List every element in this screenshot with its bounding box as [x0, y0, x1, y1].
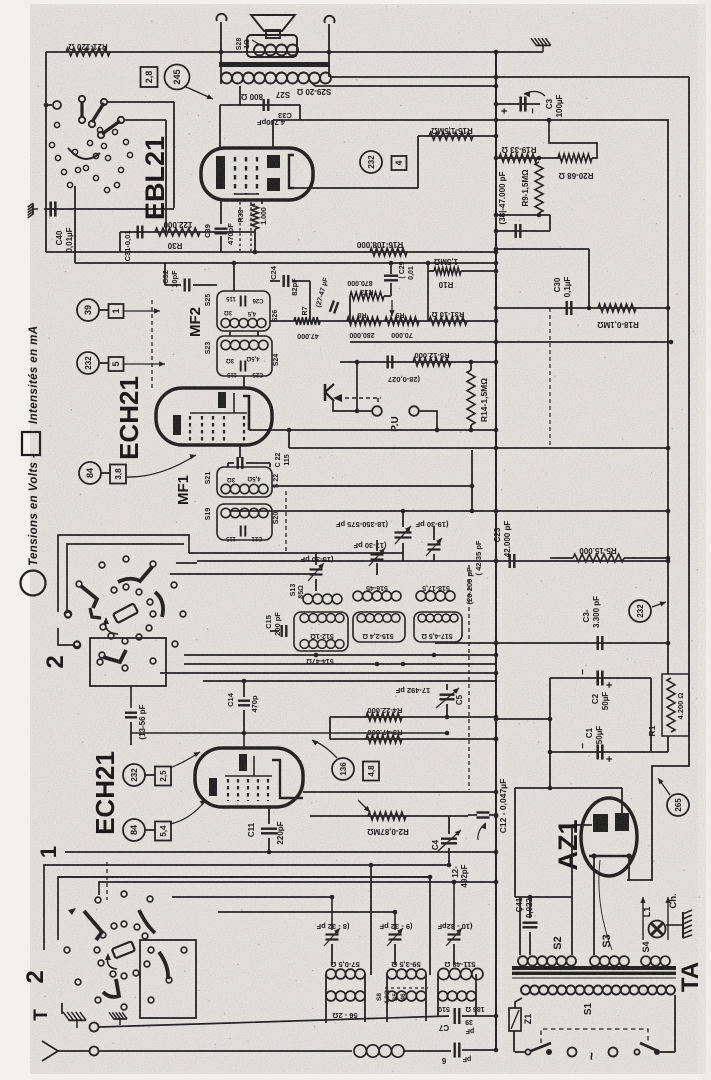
capacitor C14 470pF: [243, 681, 245, 697]
wire R7 row: [270, 320, 496, 322]
switch1 lower box: [140, 940, 196, 1018]
resistor R33 1.000: [252, 204, 259, 229]
AZ1 legs: [593, 856, 595, 955]
switch2 contact b: [74, 642, 81, 649]
wire left vertical feed: [45, 52, 47, 252]
capacitor C11: [268, 807, 270, 824]
switch1 wafer contacts: [95, 897, 101, 903]
wire row to MF2: [233, 263, 235, 291]
EBL21 grid dashes: [234, 157, 236, 194]
ground C40: [28, 203, 38, 218]
switch2 wires right: [189, 552, 403, 554]
trimmer C16: [315, 552, 317, 565]
wire transformer second tap: [315, 85, 496, 87]
S1 left leg: [515, 998, 522, 1008]
switch1 dashed axis: [106, 862, 108, 900]
antenna series coil: [354, 1045, 366, 1057]
wire long row B: [75, 262, 496, 264]
wire long row A: [46, 251, 496, 253]
ground lamp: [666, 924, 682, 926]
wire rows to switch: [184, 654, 496, 656]
resistor R10: [434, 268, 461, 275]
arrow legend 1: [124, 310, 160, 312]
EBL21 plate bracket: [289, 155, 294, 188]
tube ECH21 osc envelope: [195, 748, 303, 807]
wire K to PU: [333, 401, 372, 411]
arrow 232 right: [652, 602, 666, 607]
wire antenna row end: [462, 1049, 496, 1051]
resistor R2 0,87MΩ row: [310, 815, 468, 817]
dashed vertical x550: [549, 308, 551, 445]
speaker coil S28: [254, 45, 265, 56]
dashed legend vertical: [151, 300, 153, 390]
wire switch blade1 out: [108, 101, 174, 103]
circled 84 a: [79, 462, 101, 484]
MF1 lower coil: [221, 508, 230, 517]
winding S1: [521, 986, 530, 995]
wire switch blade2 out: [125, 119, 166, 121]
ground terre: [63, 1012, 86, 1028]
arrow 136: [312, 740, 337, 758]
arrow 245 to transformer: [184, 86, 213, 99]
legend box symbol: [22, 432, 40, 455]
trimmer C10 32pF: [453, 882, 455, 930]
arrow 2,5: [170, 752, 200, 768]
resistor R1 zigzag: [667, 678, 675, 732]
switch SP blade 2: [102, 121, 120, 134]
MF1 lower capacitor C21: [240, 526, 242, 537]
output transformer winding S27: [221, 73, 232, 84]
ground terre 2: [109, 1012, 127, 1025]
capacitor C39: [215, 227, 228, 229]
detector K symbol: [324, 384, 327, 401]
lamp L1: [649, 921, 666, 938]
MF2 upper capacitor C26: [240, 296, 242, 307]
wire MF1 to grid row: [272, 485, 472, 487]
arrow R2 tap: [358, 800, 370, 812]
wire tube osc top feed: [243, 733, 245, 748]
capacitor C24: [283, 275, 285, 287]
switch SP contacts: [54, 122, 59, 127]
wire C41 top: [515, 896, 572, 898]
wire AZ1 feed box: [515, 787, 622, 789]
transformer MF1 lower box: [217, 504, 272, 540]
wire row R3: [330, 738, 496, 740]
border outer right: [627, 77, 689, 880]
bus main vertical: [495, 52, 497, 1051]
transformer MF2 upper box: [217, 291, 270, 331]
capacitor C6 3.300pF: [597, 636, 599, 650]
mains switch left: [525, 1049, 530, 1054]
switch2 lower contacts: [97, 659, 103, 665]
resistor R15: [429, 132, 473, 140]
speaker LS: [247, 15, 297, 57]
output transformer core: [219, 62, 330, 67]
MF2 lower coil: [221, 340, 230, 349]
oscillator coil S16: [353, 591, 363, 601]
wire row y362: [340, 361, 496, 363]
circled 84 osc: [123, 819, 145, 841]
circled 232 right: [629, 600, 651, 622]
wire row y215: [496, 214, 550, 216]
resistor R30 122.000: [155, 228, 200, 236]
resistor R9 1,5MΩ vertical: [535, 162, 543, 213]
capacitor C13 56pF: [130, 686, 132, 708]
coil S10: [438, 991, 448, 1001]
S1 right leg: [674, 995, 676, 1052]
winding S3: [590, 956, 600, 966]
trimmer C8 32pF: [331, 897, 333, 930]
switch1 inner box b: [99, 882, 496, 895]
capacitor C1 50µF: [596, 745, 599, 760]
boxed 1: [109, 304, 124, 318]
AZ1 squiggle: [599, 860, 612, 950]
circled 232 osc: [123, 764, 145, 786]
wire grid row EBL21: [120, 231, 255, 233]
wire C2 row: [550, 677, 651, 679]
wire row R4: [330, 716, 496, 718]
switch SP blade 1: [92, 103, 104, 122]
boxed 5: [109, 357, 124, 371]
tube AZ1 envelope: [581, 798, 637, 876]
box B coil: [357, 614, 366, 623]
switch2 inner box: [67, 544, 184, 612]
dashed S8 top: [385, 987, 428, 989]
wire PU loop: [419, 411, 437, 430]
wire row y852: [65, 851, 496, 853]
transformer MF1 upper box: [217, 467, 272, 497]
ECH21 osc bar left: [209, 778, 217, 796]
resistor R9b 70.000: [385, 317, 419, 325]
capacitor C-ant 6pF: [454, 1043, 456, 1058]
wire row y877: [58, 876, 430, 878]
capacitor C27: [330, 301, 338, 314]
circled 245: [165, 65, 190, 90]
AZ1 anode blocks: [593, 814, 608, 832]
dashed vertical mid: [468, 565, 470, 790]
wire tube mid out: [249, 429, 496, 431]
resistor R7 47.000: [294, 317, 320, 325]
boxed 3,8: [110, 465, 126, 484]
circled 136: [332, 758, 354, 780]
terminal terre: [90, 1023, 99, 1032]
trimmer C9 32pF: [394, 912, 396, 930]
wire row y249: [496, 248, 589, 250]
coil S6: [326, 991, 336, 1001]
arrow 5,4: [170, 800, 206, 824]
wire row y342: [350, 341, 671, 343]
wire R15 row: [418, 135, 496, 137]
switch2 lower box: [90, 638, 166, 686]
EBL21 screen lead: [294, 187, 418, 189]
wire row y719: [496, 718, 550, 720]
oscillator coil S18: [416, 591, 426, 601]
resistor R1 4.200 box: [662, 674, 689, 736]
ground top right: [531, 38, 551, 52]
ECH21 mid bar top: [218, 392, 226, 408]
resistor R5 15.000: [573, 554, 624, 562]
resistor R21: [66, 48, 110, 56]
box A coil top: [300, 614, 309, 623]
wire R1 to C1 row: [667, 736, 669, 752]
speaker terminal right: [325, 16, 335, 23]
wire transformer to right border: [331, 76, 689, 78]
PU terminals: [372, 406, 382, 416]
switch1 rotor arc: [107, 956, 117, 969]
antenna symbol: [42, 1041, 58, 1061]
switch1 inner box a: [58, 877, 430, 940]
fuse Z1: [509, 1008, 521, 1031]
resistor R14 1,5MΩ vertical: [467, 370, 475, 425]
MF1 upper coil: [221, 484, 230, 493]
coil S11: [438, 968, 449, 979]
wire row y511: [230, 510, 668, 512]
capacitor C33: [220, 104, 300, 106]
capacitor C3 100µF: [496, 103, 540, 105]
boxed 5,4: [155, 822, 171, 841]
wire R20 loop: [549, 120, 597, 158]
arrow C12: [478, 823, 486, 840]
variable capacitor C4 tuning: [448, 816, 450, 834]
switch1 blades: [84, 911, 102, 940]
MF2 lower capacitor C25: [240, 361, 242, 372]
S4 arrows: [642, 897, 644, 940]
wire switch to stub: [44, 104, 52, 106]
ECH21 mid grid dashes: [189, 416, 191, 441]
resistor R31 10Ω: [429, 317, 467, 325]
arrow legend 3,8: [126, 455, 196, 477]
resistor R13 870.000: [350, 292, 384, 300]
mains plug left: [568, 1048, 577, 1057]
wire row y561: [280, 560, 668, 562]
capacitor C2 50µF: [596, 671, 599, 686]
resistor R5 12.000: [413, 358, 451, 366]
variable capacitor C5: [446, 684, 448, 690]
oscillator coil S13: [303, 594, 313, 604]
capacitor C30: [566, 301, 568, 315]
ECH21 mid bar left: [173, 415, 181, 435]
switch SP arc: [68, 148, 100, 159]
vertical legs cluster: [370, 865, 372, 975]
switch2 lower blades: [103, 650, 126, 662]
row end dots: [314, 653, 319, 658]
wire plate row osc: [303, 791, 496, 793]
wire top rail: [46, 51, 543, 53]
oscillator box B: [353, 612, 405, 642]
circled 232 top: [360, 151, 382, 173]
boxed 2,5: [155, 767, 171, 786]
capacitor C41 0,022: [529, 897, 531, 918]
MF2 upper coil: [221, 319, 230, 328]
wire C30 R18 row: [496, 307, 668, 309]
transformer MF2 lower box: [217, 336, 272, 376]
EBL21 cathode bar: [216, 156, 225, 189]
coil legs bottom: [325, 974, 327, 996]
ECH21 osc grid dashes: [227, 779, 229, 801]
wire MF2 to tube: [243, 376, 245, 388]
capacitor C29: [390, 263, 392, 274]
wire C1 row: [550, 751, 668, 753]
capacitor C23 42.000pF: [509, 554, 511, 568]
wire antenna row: [99, 1050, 352, 1052]
boxed 4,8: [363, 762, 379, 781]
S1 left leg b: [513, 1031, 515, 1052]
resistor R16 100.000: [370, 248, 407, 256]
resistor R3 47.000: [366, 735, 402, 743]
wire switch down leg: [74, 186, 76, 263]
AZ1 anode feeds: [621, 788, 623, 813]
capacitor C40: [49, 202, 52, 217]
transformer TA core: [512, 966, 676, 970]
AZ1 chord: [589, 855, 633, 857]
switch2 rotor slot: [113, 603, 138, 623]
wire coil bottoms: [325, 996, 327, 1023]
box C coil: [418, 614, 426, 622]
wire row y733: [131, 732, 447, 734]
oscillator box C: [414, 612, 462, 642]
EBL21 pin dashes: [239, 202, 241, 251]
switch1 mid wires: [172, 896, 332, 898]
border inner right: [273, 120, 668, 674]
mains dashed box: [541, 1029, 648, 1043]
wire R19 R20 row: [496, 157, 560, 159]
capacitor C15 200pF: [281, 625, 283, 637]
arrow C3 curve: [524, 91, 545, 96]
tube ECH21 mid envelope: [156, 388, 272, 445]
trimmer C19: [433, 526, 435, 540]
ECH21 osc inner lead: [225, 775, 272, 777]
mains switch right: [634, 1049, 639, 1054]
switch1 small arrow: [68, 908, 76, 915]
resistor R18: [598, 304, 636, 312]
switch1 rotor slot: [112, 941, 135, 958]
ECH21 mid inner lead: [190, 412, 247, 414]
mains plug right: [609, 1048, 618, 1057]
boxed 4: [392, 156, 407, 170]
arrow 265: [658, 778, 670, 795]
box A coil bottom: [300, 640, 309, 649]
wire terre row: [99, 1016, 449, 1027]
EBL21 pin leads: [220, 200, 222, 224]
switch SP contact pair: [79, 96, 85, 102]
EBL21 anode blocks: [267, 155, 280, 168]
arrow R9 tap: [391, 300, 393, 316]
circled 265: [667, 794, 689, 816]
legend circle symbol: [21, 571, 46, 596]
boxed 2,8: [141, 67, 158, 87]
terminal antenna: [90, 1047, 99, 1056]
ECH21 osc plate bracket: [272, 760, 303, 798]
switch2 outer box: [58, 535, 189, 612]
dashed PU link: [338, 397, 381, 399]
wire R10 branch: [427, 263, 429, 321]
ECH21 osc bar top: [239, 754, 247, 771]
dashed vertical x286: [285, 491, 287, 552]
capacitor C7 39pF: [454, 1008, 456, 1024]
resistor R19 33Ω: [499, 154, 537, 162]
resistor R2: [368, 812, 406, 820]
switch2 contact a: [65, 611, 72, 618]
resistor R4 22.000: [366, 713, 402, 721]
speaker terminal left: [217, 14, 227, 21]
resistor R20 68Ω: [558, 154, 592, 162]
vertical x472: [471, 450, 473, 511]
capacitor C22: [239, 445, 241, 458]
wire row 561 left part: [197, 560, 280, 562]
trimmer C18: [402, 511, 404, 527]
wire plate drop: [239, 86, 241, 105]
tube EBL21 envelope: [201, 148, 313, 200]
winding S4: [641, 956, 651, 966]
ECH21 mid plate bracket: [243, 396, 249, 430]
switch2 rotor arc: [106, 620, 119, 634]
resistor R8 280.000: [347, 317, 381, 325]
wire row y643: [435, 642, 668, 644]
trimmer C17: [376, 540, 378, 551]
wire plate drop to row: [288, 430, 290, 448]
winding S2: [518, 956, 528, 966]
circled 232 a: [77, 352, 99, 374]
oscillator box A: [294, 612, 348, 651]
capacitor C28: [387, 356, 389, 369]
wire row y448: [289, 447, 668, 449]
circled 39: [77, 299, 99, 321]
switch1 outer box: [44, 865, 449, 950]
junction bus top: [494, 50, 499, 55]
switch2 blades: [81, 586, 97, 608]
capacitor C12 0,047µF: [468, 814, 477, 816]
bus dots lower: [494, 737, 499, 742]
coil S7: [326, 969, 336, 979]
capacitor C31: [136, 226, 138, 239]
coil S8: [387, 991, 397, 1001]
coil S9: [387, 969, 397, 979]
EBL21 top pins: [219, 105, 221, 148]
switch2 wafer contacts: [99, 562, 105, 568]
wire C40 row: [44, 208, 174, 210]
capacitor C38: [496, 230, 550, 232]
arrow legend 5: [124, 363, 165, 365]
capacitor C32: [183, 279, 185, 292]
